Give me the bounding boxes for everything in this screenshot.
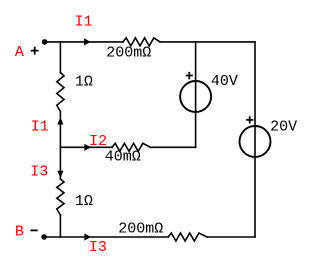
arrow I2 (right) <box>84 144 91 151</box>
wire left rail lower <box>59 215 61 237</box>
wire top: 200mohm to top-right corner <box>160 41 255 43</box>
svg-text:I3: I3 <box>89 239 107 256</box>
resistor 200mohm zigzag (bottom) <box>168 233 207 241</box>
svg-text:40V: 40V <box>211 73 238 90</box>
plus sign at node A <box>31 47 39 55</box>
plus sign 20V <box>246 116 253 123</box>
svg-text:40mΩ: 40mΩ <box>105 149 141 166</box>
wire right rail <box>254 42 256 237</box>
svg-text:B: B <box>15 224 24 241</box>
wire bottom: node B to 200mohm <box>44 236 168 238</box>
svg-text:A: A <box>15 44 24 61</box>
svg-text:1Ω: 1Ω <box>75 73 93 90</box>
resistor 1ohm zigzag (upper left) <box>57 73 64 112</box>
resistor 200mohm zigzag (top) <box>123 38 160 46</box>
wire 40V branch vertical <box>195 42 197 147</box>
arrow I1 left rail (up) <box>57 117 63 125</box>
wire bottom: 200mohm to bottom-right corner <box>207 236 255 238</box>
svg-text:I3: I3 <box>30 164 48 181</box>
svg-text:20V: 20V <box>270 119 297 136</box>
minus sign at node B <box>31 229 38 231</box>
resistor 1ohm zigzag (lower left) <box>57 179 64 215</box>
wire middle branch from node to 40mohm <box>60 146 112 148</box>
arrow I1 top (right) <box>84 38 91 45</box>
wire left rail middle <box>59 112 61 180</box>
svg-text:200mΩ: 200mΩ <box>106 45 151 62</box>
svg-text:1Ω: 1Ω <box>75 193 93 210</box>
svg-text:I1: I1 <box>31 119 49 136</box>
svg-text:I1: I1 <box>75 14 93 31</box>
plus sign 40V <box>186 72 193 79</box>
arrow I3 bottom (right) <box>84 233 91 240</box>
wire left rail upper <box>59 42 61 73</box>
wire middle: 40mohm to 40V branch <box>151 146 196 148</box>
svg-text:200mΩ: 200mΩ <box>118 220 163 237</box>
wire top: node A to 200mohm <box>45 41 123 43</box>
node A dot <box>42 39 48 45</box>
svg-text:I2: I2 <box>89 133 107 150</box>
resistor 40mohm zigzag (middle) <box>112 143 151 151</box>
arrow I3 left rail (down) <box>57 171 63 179</box>
voltage source V2 20V circle <box>240 126 271 157</box>
node B dot <box>41 234 47 240</box>
voltage source V1 40V circle <box>180 81 211 112</box>
